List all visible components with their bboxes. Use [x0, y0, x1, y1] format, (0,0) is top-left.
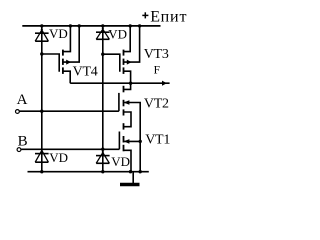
output arrow F — [162, 81, 167, 86]
node dot bottom / A column — [40, 170, 43, 173]
VT3 source lead down to output node — [124, 71, 131, 83]
wire input B line to VT1 gate — [21, 148, 119, 150]
VT2 gate bar — [118, 93, 120, 111]
ground wire bottom — [28, 171, 149, 173]
node dot bottom / VT1 source — [129, 170, 132, 173]
node dot A column / VT4 gate — [40, 52, 43, 55]
VT3 substrate lead with arrow to rail — [124, 26, 140, 62]
svg-text:VT3: VT3 — [144, 47, 169, 62]
svg-text:VT2: VT2 — [144, 96, 169, 111]
svg-text:VD: VD — [111, 154, 130, 169]
node dot rail / VT3 drain — [129, 24, 132, 27]
wire middle column (input B net) — [102, 26, 104, 172]
ground — [120, 172, 140, 185]
wire input A line to VT2 gate — [20, 110, 119, 112]
node dot bottom / B column — [101, 170, 104, 173]
node dot bottom / substrate line — [139, 170, 142, 173]
wire VT3 gate from B column — [103, 54, 120, 72]
svg-text:пит: пит — [161, 9, 188, 26]
node dot rail / B column — [101, 24, 104, 27]
VT4 substrate lead with arrow to rail — [63, 26, 79, 62]
svg-text:A: A — [17, 92, 28, 108]
diode VD (bottom middle, ground to B) — [96, 152, 110, 164]
diode VD (bottom left, ground to A) — [35, 149, 49, 162]
power rail +Eпит — [22, 25, 160, 27]
VT1 source lead down to ground wire — [124, 150, 131, 171]
transistor VT1 channel — [123, 123, 125, 151]
VT4 drain lead to rail — [63, 26, 70, 52]
input A terminal — [16, 110, 20, 114]
wire VT2 drain hook — [124, 83, 131, 89]
svg-text:B: B — [18, 134, 28, 150]
VT2 source lead down to VT1 drain — [124, 112, 131, 127]
node dot rail / VT4 substrate — [78, 24, 81, 27]
VT4 source lead down to output — [63, 71, 70, 83]
node dot B column / VT3 gate — [101, 53, 104, 56]
transistor VT2 channel — [123, 86, 125, 116]
VT1 gate bar — [118, 132, 120, 150]
diode VD (top left, A to +E) — [35, 29, 49, 41]
VT1 substrate lead with arrow to substrate line — [124, 140, 140, 142]
label +Eпит — [142, 8, 187, 25]
input B terminal — [17, 148, 21, 152]
transistor VT3 channel — [123, 50, 125, 74]
svg-text:F: F — [154, 65, 160, 77]
node dot A line / A column — [40, 110, 43, 113]
wire VT4 gate from A column — [42, 54, 59, 72]
transistor VT4 channel — [62, 50, 64, 74]
svg-text:E: E — [150, 8, 160, 25]
node dot rail / VT4 drain — [69, 24, 72, 27]
node dot rail / A column — [40, 24, 43, 27]
VT2 substrate lead with arrow, down to ground — [124, 103, 140, 172]
output wire F — [70, 82, 169, 84]
VT3 drain lead to rail — [124, 26, 130, 52]
node dot output / VT2 drain — [129, 82, 132, 85]
svg-text:VD: VD — [49, 26, 68, 41]
svg-text:VD: VD — [108, 26, 127, 41]
svg-text:VD: VD — [49, 150, 68, 165]
svg-text:VT1: VT1 — [145, 133, 170, 148]
svg-text:VT4: VT4 — [73, 64, 98, 79]
node dot B line / B column — [101, 148, 104, 151]
node dot substrate line / VT1 — [139, 140, 142, 143]
wire left column (input A net) — [41, 26, 43, 172]
diode VD (top middle, B to +E) — [96, 28, 110, 39]
node dot rail / VT3 substrate — [138, 24, 141, 27]
